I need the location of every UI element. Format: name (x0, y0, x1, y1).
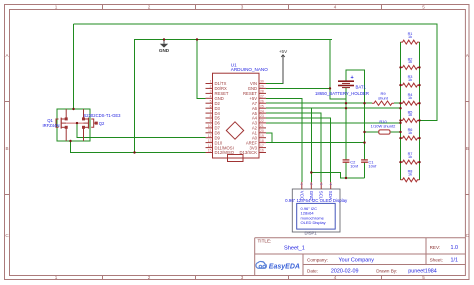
svg-text:24: 24 (260, 109, 264, 113)
resistor R5 1k (401, 110, 420, 122)
U1 right pin numbers (260, 80, 264, 153)
wire A3 to ladder left rail (266, 122, 401, 124)
svg-text:5: 5 (422, 275, 425, 280)
wire C1 bottom lead (364, 162, 366, 178)
svg-text:ARDUINO_NANO: ARDUINO_NANO (231, 67, 268, 72)
node R9 terminals (363, 102, 365, 104)
svg-text:Sheet_1: Sheet_1 (284, 246, 305, 252)
wire R10 row (365, 131, 379, 133)
svg-text:D12/MISO: D12/MISO (215, 150, 235, 155)
wire battery negative to GND rail (330, 40, 346, 100)
svg-text:S2302CDS-T1-GE3: S2302CDS-T1-GE3 (83, 113, 121, 118)
svg-text:+5V: +5V (279, 49, 288, 54)
svg-text:10nf: 10nf (350, 164, 359, 169)
ground symbol GND (159, 40, 170, 53)
svg-text:Sheet:: Sheet: (430, 258, 443, 263)
svg-text:7: 7 (210, 109, 212, 113)
wire OLED GND to capacitor bottoms (311, 173, 364, 179)
resistor R10 1/10W shunt2 (371, 119, 396, 134)
wire C2 branch (345, 88, 347, 160)
svg-text:3: 3 (241, 275, 244, 280)
wire ladder right rail (419, 42, 421, 180)
svg-text:1/10W shunt2: 1/10W shunt2 (371, 124, 396, 129)
svg-text:2: 2 (309, 183, 313, 185)
svg-text:BAT1: BAT1 (356, 85, 367, 90)
wire gate net to D9 (77, 123, 206, 138)
svg-text:1: 1 (55, 5, 58, 10)
node ladder left rail taps (399, 66, 401, 68)
wire +5V symbol to VIN (266, 55, 283, 84)
node capacitor bottom junction (345, 177, 347, 179)
svg-text:28: 28 (260, 90, 264, 94)
svg-text:1: 1 (55, 275, 58, 280)
svg-text:16: 16 (260, 149, 264, 153)
wire Q1/Q2 loop rectangle (57, 109, 90, 141)
DISP1 pin 2 GND (309, 182, 314, 201)
U1 right pins 16-30 (259, 84, 266, 153)
svg-text:8: 8 (210, 114, 212, 118)
node R10 terminals (363, 131, 365, 133)
svg-text:10nf: 10nf (368, 164, 377, 169)
U1 left pin numbers (208, 80, 212, 153)
resistor R3 1k (401, 75, 420, 87)
svg-text:0.96" 128*64 I2C OLED Display: 0.96" 128*64 I2C OLED Display (285, 198, 348, 203)
svg-text:TITLE:: TITLE: (258, 239, 272, 244)
svg-text:GND: GND (309, 191, 314, 201)
node C2 tap (345, 102, 347, 104)
wire battery positive to shunt column (346, 70, 365, 160)
DISP1 pin 4 SDA (328, 182, 333, 200)
wire gate link Q1-Q2 (66, 122, 83, 124)
U1 left pin labels (215, 81, 235, 155)
svg-text:29: 29 (260, 85, 264, 89)
EasyEDA logo (256, 261, 300, 270)
svg-text:30: 30 (260, 80, 264, 84)
svg-text:10: 10 (208, 124, 212, 128)
svg-text:17: 17 (260, 144, 264, 148)
power symbol +5V (279, 49, 288, 84)
node AREF junction (363, 141, 365, 143)
svg-text:11: 11 (208, 129, 212, 133)
node OLED GND junction (310, 171, 312, 173)
svg-text:5: 5 (422, 5, 425, 10)
svg-text:Your Company: Your Company (339, 258, 375, 264)
resistor R7 1k (401, 152, 420, 164)
node GND rail junctions (163, 38, 165, 40)
svg-text:1k: 1k (408, 113, 412, 117)
svg-text:2: 2 (210, 85, 212, 89)
wire +5V pin to OLED VCC (266, 98, 302, 182)
svg-text:GND: GND (159, 48, 170, 53)
svg-text:9: 9 (210, 119, 212, 123)
svg-text:27: 27 (260, 95, 264, 99)
wire ladder left rail (400, 42, 402, 180)
node Q loop junctions (72, 108, 74, 110)
wire GND bottom run to D12/MISO (71, 141, 206, 153)
svg-text:21: 21 (260, 124, 264, 128)
wire supply drop to Q1/Q2 loop (73, 24, 75, 109)
svg-text:4: 4 (334, 275, 337, 280)
resistor R8 1k (401, 170, 420, 182)
svg-text:18650_BATTERY_HOLDER: 18650_BATTERY_HOLDER (315, 91, 369, 96)
svg-text:26: 26 (260, 99, 264, 103)
wire A4 to OLED SDA (266, 118, 331, 182)
svg-text:4: 4 (329, 183, 333, 185)
node ladder right rail taps (418, 66, 420, 68)
DISP1 pin 3 SCL (319, 182, 324, 200)
svg-text:REV:: REV: (430, 245, 441, 250)
svg-text:3: 3 (241, 5, 244, 10)
svg-text:B: B (466, 146, 469, 151)
svg-text:19: 19 (260, 134, 264, 138)
svg-text:Drawn By:: Drawn By: (376, 269, 397, 274)
resistor R2 1k (401, 57, 420, 69)
svg-text:1/1: 1/1 (451, 258, 459, 264)
transistor Q2 S2302CDS-T1-GE3 (83, 109, 98, 141)
svg-text:VCC: VCC (299, 191, 304, 200)
title block (255, 238, 466, 276)
node battery GND junction (329, 87, 331, 89)
wire GND drop to U1 pin 4 (197, 40, 206, 99)
svg-text:1k: 1k (408, 131, 412, 135)
DISP1 pin 1 VCC (299, 182, 304, 200)
svg-text:4: 4 (334, 5, 337, 10)
svg-text:SDA: SDA (328, 191, 333, 200)
wire A7 to R9 and ladder (266, 102, 372, 104)
svg-text:2: 2 (148, 275, 151, 280)
svg-text:1.0: 1.0 (451, 245, 459, 251)
wire A5 to OLED SCL (266, 113, 321, 182)
svg-text:DISP1: DISP1 (305, 231, 318, 236)
wire top supply rail (74, 24, 438, 121)
resistor R1 1k (401, 32, 420, 44)
svg-text:25: 25 (260, 104, 264, 108)
U1 left pins 1-15 (206, 84, 213, 153)
svg-text:2: 2 (148, 5, 151, 10)
svg-text:4: 4 (210, 95, 212, 99)
display DISP1 OLED module body (285, 189, 348, 236)
capacitor C2 10nf (343, 159, 359, 168)
svg-text:shunt: shunt (378, 96, 389, 101)
IC U1 ARDUINO_NANO (213, 62, 269, 161)
svg-text:14: 14 (208, 144, 212, 148)
svg-text:1: 1 (300, 183, 304, 185)
wire GND rail (135, 40, 333, 153)
svg-text:5: 5 (210, 99, 212, 103)
svg-text:Date:: Date: (307, 269, 318, 274)
svg-text:3: 3 (210, 90, 212, 94)
capacitor C1 10nf (361, 159, 377, 168)
svg-text:EasyEDA: EasyEDA (269, 263, 300, 270)
wire U1 GND pin 29 to battery branch (266, 87, 330, 89)
svg-text:1k: 1k (408, 173, 412, 177)
wire OLED GND drop (310, 108, 312, 182)
svg-text:1k: 1k (408, 155, 412, 159)
svg-text:13: 13 (208, 139, 212, 143)
svg-text:6: 6 (210, 104, 212, 108)
resistor R6 1k (401, 128, 420, 140)
svg-text:puneet1984: puneet1984 (408, 269, 436, 275)
svg-text:20: 20 (260, 129, 264, 133)
svg-text:22: 22 (260, 119, 264, 123)
svg-text:1: 1 (210, 80, 212, 84)
resistor R4 1k (401, 93, 420, 105)
svg-text:1k: 1k (408, 96, 412, 100)
svg-text:15: 15 (208, 149, 212, 153)
svg-text:IRFZ44N: IRFZ44N (43, 123, 60, 128)
svg-text:18: 18 (260, 139, 264, 143)
U1 right pin labels (240, 81, 258, 155)
svg-text:2020-02-09: 2020-02-09 (331, 269, 359, 275)
svg-text:D13/SCK: D13/SCK (240, 150, 258, 155)
resistor R9 shunt (372, 91, 394, 105)
wire A6 row to ladder left rail (266, 107, 401, 109)
wire C2 bottom lead (345, 162, 347, 178)
svg-text:+: + (351, 75, 354, 81)
svg-text:1k: 1k (408, 35, 412, 39)
svg-text:12: 12 (208, 134, 212, 138)
transistor Q1 IRFZ44N (56, 109, 67, 141)
svg-text:1k: 1k (408, 60, 412, 64)
svg-text:SCL: SCL (319, 191, 324, 200)
battery BAT1 18650_BATTERY_HOLDER (338, 81, 354, 87)
svg-text:3: 3 (319, 183, 323, 185)
svg-text:OLED Display: OLED Display (301, 220, 326, 225)
svg-text:23: 23 (260, 114, 264, 118)
svg-text:B: B (5, 146, 8, 151)
svg-text:Company:: Company: (307, 258, 328, 263)
svg-text:1k: 1k (408, 78, 412, 82)
svg-text:Q2: Q2 (99, 121, 105, 126)
wire A1 elbow (266, 133, 272, 143)
wire AREF row to shunt column (266, 142, 365, 144)
